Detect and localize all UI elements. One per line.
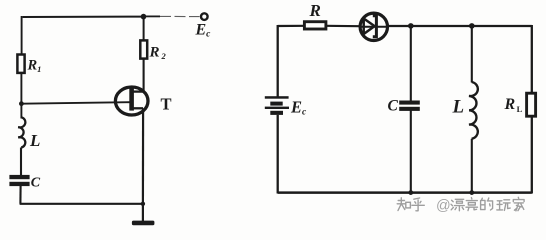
wire: L branch upper (471, 26, 473, 83)
wire: C branch lower (410, 111, 412, 193)
wire: right top rail segment 2 (326, 25, 359, 28)
wire: left rail mid (R1 to L) (20, 73, 22, 119)
node: emitter / bottom rail junction (141, 202, 145, 206)
wire: R2 upper lead (143, 17, 145, 41)
node: base junction on left rail (19, 101, 24, 106)
watermark ink (397, 197, 524, 211)
tunnel diode D (359, 13, 389, 40)
wire: C to bottom rail (19, 186, 21, 204)
wire: right top rail segment 3 (388, 25, 532, 27)
node: top junction at L branch (469, 23, 475, 29)
transistor T (115, 87, 148, 115)
inductor L (left circuit) (18, 117, 25, 147)
wire: right top rail segment 1 (278, 25, 305, 27)
wire: faded lead to Ec terminal (146, 15, 160, 17)
capacitor C (left circuit) top plate (9, 175, 29, 179)
wire: C branch upper (410, 26, 412, 101)
wire: R2 to transistor collector (143, 58, 145, 92)
watermark emboss (white relief) (398, 198, 525, 212)
wire: left edge down to battery (277, 25, 279, 97)
capacitor C (right circuit) bottom plate (399, 107, 420, 111)
wire: left rail upper (top rail to R1) (21, 16, 23, 56)
wire: right edge lower (RL to bottom rail) (531, 116, 533, 194)
wire: emitter down to bottom rail (142, 108, 144, 204)
resistor R1 (17, 55, 24, 73)
wire: right edge upper (rail to RL) (531, 25, 533, 94)
wire: L branch lower (471, 139, 473, 193)
wire: left bottom rail (20, 203, 143, 205)
node: top junction at C branch (408, 23, 414, 29)
capacitor C (right circuit) top plate (399, 101, 420, 105)
node: bottom junction at L branch (469, 190, 474, 195)
wire: right bottom rail (278, 191, 532, 194)
svg-text:@: @ (436, 198, 451, 214)
resistor R2 (140, 40, 147, 58)
node: top junction (collector rail / Ec lead) (141, 14, 147, 20)
wire: ground lead (142, 204, 144, 221)
resistor R (series) (304, 22, 326, 29)
wire: battery to bottom rail (277, 115, 279, 194)
wire: left top rail (23, 16, 144, 18)
node: bottom junction at C branch (408, 190, 413, 195)
resistor RL (527, 93, 536, 116)
capacitor C (left circuit) bottom plate (9, 182, 29, 186)
ground (132, 221, 155, 226)
wire: L to C (20, 148, 22, 177)
inductor L (right circuit) (469, 82, 478, 139)
wire: base wire to transistor (21, 102, 130, 104)
terminal: Ec supply terminal (201, 13, 208, 20)
battery Ec (265, 96, 289, 115)
